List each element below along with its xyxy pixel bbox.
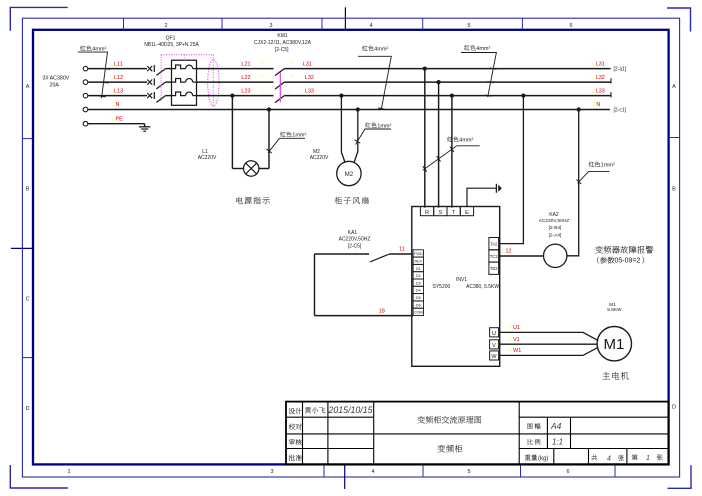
svg-text:4mm²: 4mm² (92, 47, 106, 53)
svg-text:M2: M2 (345, 172, 354, 178)
junction on L33 for TA2 (521, 94, 525, 98)
svg-text:L23: L23 (241, 88, 250, 94)
svg-text:QF1: QF1 (166, 36, 176, 42)
inverter earth terminal E (460, 207, 473, 216)
svg-text:AC380, 5.5KW: AC380, 5.5KW (466, 284, 499, 290)
svg-text:4mm²: 4mm² (476, 46, 490, 52)
svg-text:L31: L31 (303, 61, 312, 67)
svg-text:REV: REV (415, 260, 423, 264)
wire gauge label hongse 4mm2 (N bus) (362, 46, 373, 51)
wire gauge label hongse 4mm2 (terminals) (80, 46, 91, 51)
junction on L31 for R (423, 67, 427, 71)
svg-text:11: 11 (399, 246, 405, 252)
junction on L33 for fan (339, 94, 343, 98)
designer name huangxiaofei (305, 407, 326, 413)
wire L13 segment from terminal to QF1 (88, 95, 147, 97)
svg-text:R: R (425, 210, 429, 216)
breaker QF1 pole 2 contact (147, 80, 152, 85)
junction on N for fan (356, 107, 360, 111)
svg-text:D3: D3 (416, 281, 421, 285)
svg-text:[2-A4]: [2-A4] (549, 233, 562, 239)
svg-text:W1: W1 (513, 348, 521, 354)
wire lamp phase drop (231, 96, 233, 169)
svg-text:4: 4 (369, 23, 372, 29)
svg-text:1: 1 (67, 469, 70, 475)
wire N bus (88, 109, 610, 111)
inverter output terminal W (490, 351, 499, 360)
svg-text:U: U (492, 331, 496, 337)
PE ground symbol (144, 124, 146, 127)
svg-text:S: S (438, 210, 442, 216)
thermal element pole 3 (172, 92, 186, 96)
wire L31 segment (284, 68, 610, 70)
inverter control terminals FWD..COM (413, 250, 423, 257)
svg-text:3: 3 (269, 23, 272, 29)
label zhongliang (weight kg) (525, 455, 537, 461)
title row label sheji (289, 408, 302, 414)
inverter INV1 outline (412, 207, 500, 367)
wire L11 segment from terminal to QF1 (88, 68, 147, 70)
net marker dots (yellow) (260, 61, 262, 63)
junction on L32 for S (437, 80, 441, 84)
svg-text:5.5KW: 5.5KW (607, 307, 622, 313)
svg-text:SY5200: SY5200 (433, 284, 451, 290)
wire stub L32 end (610, 78, 612, 83)
breaker QF1 thermal unit box (172, 60, 197, 105)
right zone band divider (669, 137, 680, 139)
indicator lamp L1 (244, 161, 259, 176)
svg-text:D1: D1 (416, 267, 421, 271)
svg-text:COM: COM (414, 311, 423, 315)
svg-text:1:1: 1:1 (552, 437, 563, 446)
svg-text:D: D (26, 406, 30, 412)
svg-text:A4: A4 (550, 421, 562, 431)
svg-text:KM1: KM1 (277, 33, 288, 39)
svg-text:5: 5 (467, 23, 470, 29)
svg-text:D2: D2 (416, 274, 421, 278)
caption dianyuan zhishi (power indicator) (236, 197, 270, 204)
wire KA2 coil to N (567, 110, 579, 256)
wire gauge label hongse 4mm2 (L3x bus) (464, 45, 475, 50)
svg-text:20A: 20A (50, 82, 60, 88)
svg-text:AC220V,50HZ: AC220V,50HZ (339, 237, 371, 243)
wire gauge label hongse 1mm2 (fan) (365, 122, 376, 127)
svg-text:D: D (672, 405, 676, 411)
wire KA1 return to COM (314, 254, 316, 316)
svg-text:AC220V: AC220V (310, 155, 329, 161)
inverter input terminal R (420, 207, 433, 216)
wire L21 segment (197, 68, 274, 70)
svg-text:M1: M1 (603, 336, 624, 353)
svg-text:L32: L32 (596, 75, 605, 81)
wire L33 segment (284, 95, 610, 97)
svg-text:(kg): (kg) (538, 456, 548, 462)
caption alarm parameter (597, 257, 614, 264)
wire PE segment (88, 123, 145, 125)
svg-text:AC220V,50HZ: AC220V,50HZ (539, 218, 570, 224)
svg-text:B: B (672, 187, 676, 193)
wire KA1 left (315, 253, 370, 255)
wire fan N drop (354, 110, 358, 163)
svg-text:2015/10/15: 2015/10/15 (328, 405, 373, 415)
wire L32 segment (284, 81, 611, 83)
svg-text:L11: L11 (114, 61, 123, 67)
fan motor M2 (337, 161, 361, 185)
relay contact KA1 blade (370, 254, 390, 262)
wire W to motor (499, 347, 599, 355)
wire R drop (424, 69, 426, 208)
svg-text:[2-B4]: [2-B4] (549, 225, 562, 231)
bottom center mark (344, 464, 346, 489)
svg-text:4mm²: 4mm² (459, 138, 473, 144)
svg-text:L12: L12 (114, 75, 123, 81)
motor M1 (597, 327, 631, 361)
title row label shenhe (289, 439, 302, 445)
svg-text:AC220V: AC220V (198, 155, 217, 161)
wire L22 segment (197, 81, 274, 83)
label tufu (sheet size) (528, 423, 541, 429)
top zone band ticks (123, 18, 125, 30)
svg-text:1: 1 (646, 455, 650, 462)
wire gauge label hongse 1mm2 (lamp) (280, 132, 291, 137)
breaker QF1 linkage (dashed) (161, 54, 213, 56)
svg-text:[2-c1]: [2-c1] (614, 108, 627, 114)
svg-text:N: N (116, 102, 120, 108)
inverter relay terminal TA2 (489, 238, 499, 250)
inverter input terminal T (447, 207, 460, 216)
breaker QF1 pole 1 contact (147, 66, 152, 71)
svg-text:A: A (672, 84, 676, 90)
svg-text:CJX2-12/11, AC380V,12A: CJX2-12/11, AC380V,12A (254, 40, 312, 46)
title row label jiaodui (289, 424, 302, 430)
caption guizi fengshan (cabinet fan) (335, 197, 369, 204)
svg-text:L33: L33 (305, 88, 314, 94)
sheet number di 1 zhang (632, 454, 638, 460)
left zone band dividers (22, 138, 33, 140)
input terminals (83, 66, 88, 71)
thermal element pole 1 (172, 65, 186, 69)
svg-text:D5: D5 (416, 296, 421, 300)
wire V to motor (499, 343, 598, 345)
relay coil KA2 (544, 244, 567, 267)
svg-text:6: 6 (566, 469, 569, 475)
svg-text:N: N (596, 102, 600, 108)
svg-text:3: 3 (270, 469, 273, 475)
inner drawing frame (33, 30, 669, 465)
wire TC2 to KA2 coil (499, 255, 544, 257)
junction on L33 for T (450, 94, 454, 98)
bottom zone band ticks (323, 464, 325, 477)
svg-text:[2-a1]: [2-a1] (614, 67, 627, 73)
svg-text:L33: L33 (596, 88, 605, 94)
svg-text:L32: L32 (305, 75, 314, 81)
svg-text:6: 6 (569, 23, 572, 29)
label bili (scale) (528, 439, 541, 445)
wire E to earth (467, 188, 496, 206)
wire fan phase drop (341, 96, 345, 163)
svg-text:4mm²: 4mm² (374, 47, 388, 53)
svg-text:E: E (465, 210, 469, 216)
svg-text:W: W (491, 354, 497, 360)
svg-text:V1: V1 (513, 337, 520, 343)
svg-text:A: A (26, 84, 30, 90)
caption inverter fault alarm (595, 246, 653, 254)
drawing subtitle bianpingui (438, 445, 463, 453)
svg-text:L21: L21 (241, 61, 250, 67)
svg-text:C: C (26, 297, 30, 303)
junction on L23 for lamp (230, 94, 234, 98)
wire TA2 to L33 (499, 96, 524, 244)
net marker dots near KA1 (yellow) (355, 250, 357, 252)
svg-text:PE: PE (116, 116, 124, 122)
inverter input terminal S (434, 207, 447, 216)
svg-text:05-09=2: 05-09=2 (615, 258, 641, 265)
contactor KM1 pole 1 contact (275, 69, 284, 76)
top center mark (344, 7, 346, 30)
contactor KM1 pole 2 contact (275, 82, 284, 89)
svg-text:NB1L-40D25, 3P+N 25A: NB1L-40D25, 3P+N 25A (144, 42, 199, 48)
inverter relay terminal TC2 (489, 250, 499, 262)
wire KA1 to FWD (390, 253, 412, 255)
svg-text:[2-C5]: [2-C5] (275, 47, 289, 53)
sheet count gong 4 zhang (591, 455, 597, 461)
svg-text:KA1: KA1 (348, 230, 358, 236)
svg-text:INV1: INV1 (456, 277, 467, 283)
svg-text:5: 5 (467, 469, 470, 475)
wire gauge label hongse 4mm2 (RST drops) (447, 137, 458, 142)
wire QF1 pole 1 to thermal box (166, 68, 172, 70)
wire gauge label hongse 1mm2 (KA2) (589, 162, 600, 167)
svg-text:3# AC380V: 3# AC380V (43, 75, 70, 81)
wire QF1 pole 3 to thermal box (166, 95, 172, 97)
cable marker ellipse (208, 60, 219, 107)
inverter output terminal U (490, 328, 499, 337)
svg-text:D6: D6 (416, 303, 421, 307)
svg-text:U1: U1 (513, 325, 520, 331)
svg-text:1mm²: 1mm² (377, 123, 391, 129)
svg-text:1mm²: 1mm² (292, 133, 306, 139)
svg-text:[2-C5]: [2-C5] (348, 244, 362, 250)
title block grid (286, 402, 669, 465)
svg-text:FWD: FWD (414, 252, 423, 256)
sheet corner trim marks (10, 7, 68, 30)
breaker QF1 pole 3 contact (147, 93, 152, 98)
contactor KM1 linkage (279, 73, 281, 103)
svg-text:D4: D4 (416, 289, 421, 293)
svg-text:L22: L22 (241, 75, 250, 81)
wire L23 segment (197, 95, 274, 97)
svg-text:TB2: TB2 (490, 266, 498, 271)
wire U to motor (499, 332, 599, 340)
svg-text:18: 18 (379, 308, 385, 314)
svg-text:L13: L13 (114, 88, 123, 94)
junction on N for lamp (267, 107, 271, 111)
left center mark (11, 247, 33, 249)
svg-text:KA2: KA2 (549, 212, 559, 218)
drawing title bianpingui jiaoliu yuanlitu (417, 416, 481, 424)
svg-text:4: 4 (607, 455, 611, 462)
svg-text:1mm²: 1mm² (601, 163, 615, 169)
wire T drop (451, 96, 453, 208)
earth symbol at E (495, 184, 497, 193)
inverter relay terminal TB2 (489, 262, 499, 274)
wire S drop (438, 82, 440, 208)
svg-text:V: V (492, 343, 496, 349)
svg-text:12: 12 (506, 249, 512, 255)
thermal element pole 2 (172, 79, 186, 83)
svg-text:B: B (26, 187, 30, 193)
svg-text:TA2: TA2 (490, 242, 498, 247)
wire stub L33 end (610, 92, 612, 97)
caption zhudianji (main motor) (602, 372, 629, 380)
wire QF1 pole 2 to thermal box (166, 81, 172, 83)
title row label pizhun (289, 455, 302, 461)
wire lamp to N (259, 168, 269, 170)
wire L12 segment from terminal to QF1 (88, 81, 147, 83)
junction on N for KA2 (577, 107, 581, 111)
svg-text:L31: L31 (596, 61, 605, 67)
svg-text:TC2: TC2 (490, 254, 499, 259)
contactor KM1 pole 3 contact (275, 96, 284, 103)
svg-text:2: 2 (164, 23, 167, 29)
svg-text:4: 4 (371, 469, 374, 475)
inverter output terminal V (490, 340, 499, 349)
